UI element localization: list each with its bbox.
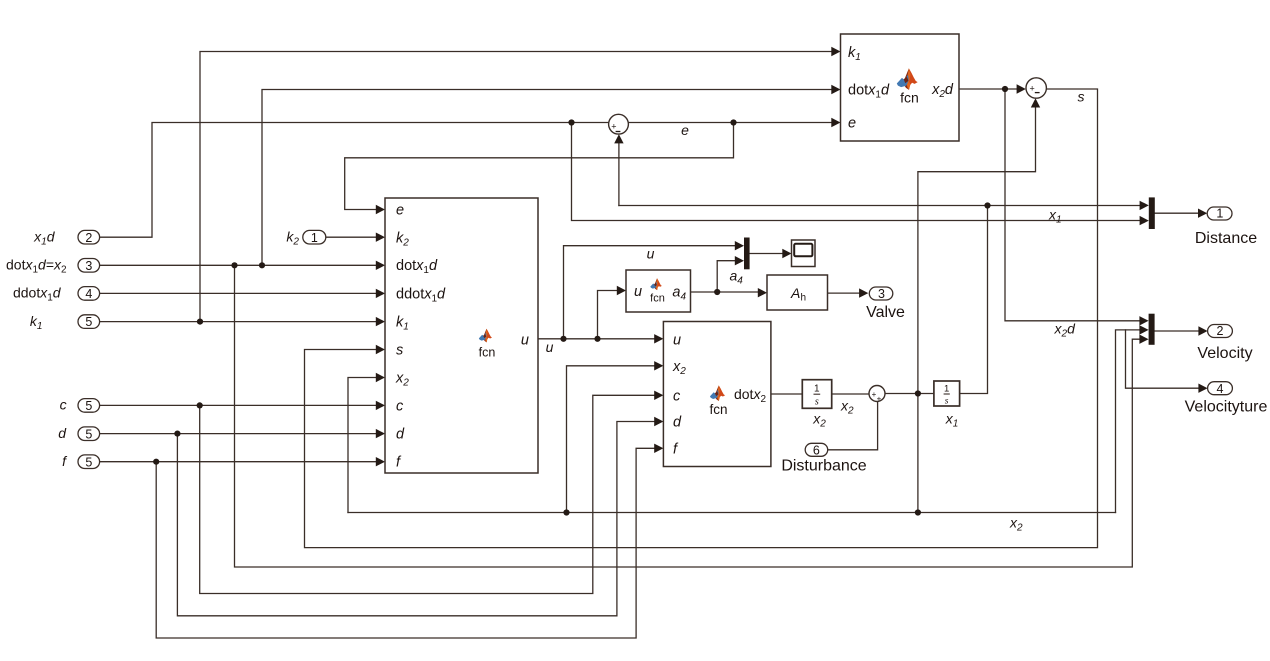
svg-text:u: u <box>647 245 655 261</box>
svg-text:fcn: fcn <box>900 89 919 105</box>
arrow into Ah <box>758 288 767 297</box>
svg-text:1: 1 <box>1216 207 1223 221</box>
wire x2 feedback up to Velocity mux input2 <box>1116 330 1142 513</box>
arrow into sum1 plus <box>1017 84 1026 93</box>
wire f branch down-around to dotx2 fcn f input <box>156 448 656 638</box>
wire c port to big fcn <box>100 404 377 406</box>
svg-text:6: 6 <box>813 443 820 457</box>
svg-text:Disturbance: Disturbance <box>781 458 866 475</box>
arrow into fcn1 s <box>376 345 385 354</box>
svg-text:dotx1d: dotx1d <box>396 258 438 276</box>
scope block <box>792 240 816 267</box>
svg-text:ddotx1d: ddotx1d <box>396 286 446 304</box>
svg-text:3: 3 <box>85 259 92 273</box>
arrow into mux2 in1 <box>1139 316 1148 325</box>
arrow into fcn1 k2 <box>376 233 385 242</box>
arrow into sum1 minus <box>1031 98 1040 107</box>
MATLAB Function block fcn1 (controller u) <box>385 198 538 473</box>
svg-text:4: 4 <box>85 287 92 301</box>
svg-text:e: e <box>681 122 689 138</box>
wire k2 port to big fcn <box>326 236 377 238</box>
arrow into fcn1 c <box>376 401 385 410</box>
svg-text:c: c <box>396 398 404 414</box>
wire x2 feedback main line <box>348 512 1116 514</box>
input port 4 ddotx1d <box>13 285 100 304</box>
arrow into mux3 in2 <box>735 256 744 265</box>
node e branch <box>730 119 736 125</box>
svg-text:Valve: Valve <box>866 304 905 321</box>
svg-text:Velocity: Velocity <box>1197 345 1252 362</box>
output port 2 Velocity <box>1197 324 1252 362</box>
svg-text:d: d <box>58 425 67 441</box>
svg-text:s: s <box>1078 88 1085 104</box>
wire x2 branch up into dotx2 fcn x2 input <box>567 366 657 513</box>
svg-text:s: s <box>396 342 403 358</box>
svg-text:u: u <box>673 332 681 348</box>
mux3 scope <box>744 238 750 270</box>
wire d port to big fcn <box>100 433 377 435</box>
output port 3 Valve <box>866 287 905 321</box>
arrow into fcn2 k1 <box>831 47 840 56</box>
svg-text:5: 5 <box>85 399 92 413</box>
node k1 branch <box>197 319 203 325</box>
output port 1 Distance <box>1195 207 1257 247</box>
arrow into scope <box>782 249 791 258</box>
svg-text:fcn: fcn <box>650 293 665 305</box>
wire x2 feedback up into big fcn x2 input <box>348 378 377 513</box>
sum block sum3 (e = x1d - x1) <box>609 114 629 134</box>
wire x1d branch down to Distance mux input2 <box>572 123 1142 221</box>
wire e from sum3 to fcn2 e input <box>628 122 833 124</box>
input port 2 x1d <box>33 229 99 248</box>
wire f port to big fcn <box>100 461 377 463</box>
arrow into fcn1 dotx1d <box>376 261 385 270</box>
node dotx1d up branch <box>259 262 265 268</box>
node x2 to fcn3 <box>563 509 569 515</box>
wire x2d branch down to Velocity mux input1 <box>1005 89 1141 321</box>
arrow into fcn4 u <box>617 286 626 295</box>
svg-text:+: + <box>1030 84 1035 94</box>
node a4 branch <box>714 289 720 295</box>
input port 1 k2 <box>286 229 325 248</box>
arrow into port4 <box>1198 384 1207 393</box>
node x2d branch <box>1002 86 1008 92</box>
svg-text:A: A <box>790 285 800 301</box>
input port 5 k1 <box>30 313 100 332</box>
wire x2 branch down to x2 feedback line <box>917 394 919 513</box>
arrow into mux1 in1 <box>1140 201 1149 210</box>
node d branch <box>174 431 180 437</box>
wire k1 branch up and top line to fcn2 k1 input <box>200 52 833 323</box>
arrow into fcn3 f <box>654 444 663 453</box>
svg-text:fcn: fcn <box>709 402 727 417</box>
node x1 branch <box>984 202 990 208</box>
svg-text:2: 2 <box>1217 324 1224 338</box>
svg-text:e: e <box>848 116 856 132</box>
MATLAB Function block fcn2 (x2d) <box>841 34 960 141</box>
svg-text:Velocityture: Velocityture <box>1185 398 1268 415</box>
svg-text:1: 1 <box>944 384 949 395</box>
wire u from big fcn to dotx2 fcn <box>538 338 656 340</box>
svg-text:s: s <box>945 396 949 406</box>
svg-text:2: 2 <box>85 231 92 245</box>
arrow into fcn1 f <box>376 457 385 466</box>
wire dotx2 fcn to integrator1 <box>771 393 802 395</box>
svg-text:c: c <box>60 397 67 413</box>
wire mux2 to port2 Velocity <box>1155 330 1200 332</box>
wire e branch down-left into big fcn e input <box>345 123 734 210</box>
wire ddotx1d port to big fcn <box>100 292 377 294</box>
input port 5 d <box>58 425 99 441</box>
wire integrator2 x1 output up to x1 line <box>960 206 988 394</box>
input port 5 c <box>60 397 100 413</box>
arrow into mux2 in2 <box>1139 325 1148 334</box>
svg-text:u: u <box>521 333 529 349</box>
node u branch2 <box>594 336 600 342</box>
arrow into port3 <box>859 288 868 297</box>
arrow into mux3 in1 <box>735 241 744 250</box>
svg-text:+: + <box>877 395 882 404</box>
arrow into fcn1 ddotx1d <box>376 289 385 298</box>
input port 6 Disturbance <box>781 443 866 474</box>
gain block Ah <box>767 275 828 310</box>
MATLAB Function block fcn4 (u to a4) <box>626 270 691 312</box>
arrow into fcn3 c <box>654 391 663 400</box>
arrow into port1 <box>1198 209 1207 218</box>
svg-text:fcn: fcn <box>479 345 496 359</box>
svg-text:d: d <box>673 415 682 431</box>
svg-text:5: 5 <box>85 315 92 329</box>
arrow into fcn3 x2 <box>654 361 663 370</box>
wire Disturbance port to sum2 bottom <box>828 402 878 450</box>
arrow into fcn2 e <box>831 118 840 127</box>
node f branch <box>153 459 159 465</box>
node x1d branch <box>568 119 574 125</box>
wire d branch down-around to dotx2 fcn d input <box>177 422 656 616</box>
svg-text:Distance: Distance <box>1195 230 1257 247</box>
wire x1 feedback up into sum3 minus input <box>618 141 620 206</box>
sum block sum1 (s = x2d - x2) <box>1026 78 1046 98</box>
wire u branch up to small fcn input <box>598 291 619 339</box>
wire mux3 to scope <box>750 253 784 255</box>
svg-text:s: s <box>815 396 819 407</box>
wire x2 branch up to sum1 minus input <box>918 105 1036 394</box>
arrowheads <box>376 47 1208 467</box>
arrow into fcn2 dotx1d <box>831 85 840 94</box>
svg-text:dotx1d: dotx1d <box>848 82 890 100</box>
wire u branch up to mux3 input1 <box>564 246 737 339</box>
wire mux1 to port1 Distance <box>1155 212 1199 214</box>
arrow into fcn1 e <box>376 205 385 214</box>
svg-text:1: 1 <box>311 231 318 245</box>
node sum2 output branch <box>915 390 921 396</box>
wire x2d from fcn2 to sum1 <box>959 88 1019 90</box>
arrow into mux2 in3 <box>1139 335 1148 344</box>
svg-text:5: 5 <box>85 455 92 469</box>
node c branch <box>197 402 203 408</box>
node x2 line crossing <box>915 509 921 515</box>
svg-text:3: 3 <box>878 287 885 301</box>
wire dotx1d branch down to Velocity mux input3 <box>235 265 1142 567</box>
svg-text:4: 4 <box>1217 382 1224 396</box>
node u branch1 <box>560 336 566 342</box>
arrow into fcn1 x2 <box>376 373 385 382</box>
svg-text:1: 1 <box>814 383 820 394</box>
svg-text:e: e <box>396 202 404 218</box>
wire a4 from small fcn to Ah block <box>691 291 760 293</box>
MATLAB Function block fcn3 (dotx2) <box>663 322 771 467</box>
arrow into mux1 in2 <box>1140 216 1149 225</box>
input port 3 dotx1d=x2 <box>6 257 100 276</box>
svg-text:c: c <box>673 388 681 404</box>
arrow into fcn1 k1 <box>376 317 385 326</box>
svg-text:+: + <box>611 121 616 131</box>
wire c branch down-around to dotx2 fcn c input <box>200 395 656 593</box>
wire sum2 to integrator2 <box>885 393 934 395</box>
svg-text:d: d <box>396 427 405 443</box>
wire a4 branch up to mux3 input2 <box>717 261 736 292</box>
wire s feedback from sum1 down around to big fcn s input <box>305 89 1098 548</box>
wire x1 line right to Distance mux input1 <box>988 205 1141 207</box>
arrow into port2 <box>1198 326 1207 335</box>
svg-text:u: u <box>546 339 554 355</box>
wire dotx1d port to big fcn <box>100 264 377 266</box>
arrow into fcn1 d <box>376 429 385 438</box>
wire x1d from port2 up and right into sum3 <box>100 123 609 238</box>
integrator block 1/s (x1) <box>934 381 960 429</box>
wire x2 branch down to port4 Velocityture <box>1126 330 1201 388</box>
arrow into fcn3 d <box>654 417 663 426</box>
arrow into sum3 minus <box>614 134 623 143</box>
wire dotx1d branch up to fcn2 dotx1d input <box>262 90 833 266</box>
mux1 Distance <box>1149 197 1155 229</box>
mux2 Velocity <box>1149 314 1155 345</box>
node dotx1d down branch <box>231 262 237 268</box>
svg-text:5: 5 <box>85 427 92 441</box>
input port 5 f <box>62 453 99 469</box>
wire integrator1 to sum2 <box>832 393 869 395</box>
arrow into fcn3 u <box>654 334 663 343</box>
wire Ah to port3 Valve <box>828 292 862 294</box>
wire x1 line left to sum3 branch <box>619 205 988 207</box>
wire k1 port to big fcn <box>100 321 377 323</box>
sum block sum2 (x2 + disturbance) <box>869 386 885 404</box>
svg-text:h: h <box>801 292 807 303</box>
svg-text:u: u <box>634 284 642 300</box>
output port 4 Velocityture <box>1185 382 1268 416</box>
integrator block 1/s (x2) <box>802 380 831 430</box>
